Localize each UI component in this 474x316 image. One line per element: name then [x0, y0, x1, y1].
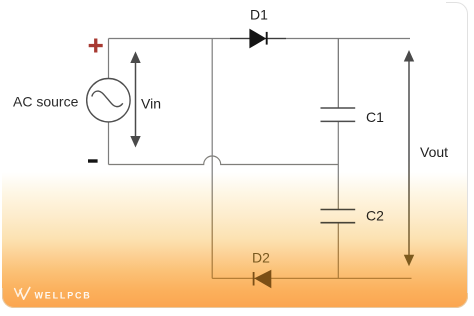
wire left vertical upper: AC source top lead — [108, 39, 110, 79]
diode D1 — [230, 29, 286, 49]
diode D2 — [254, 270, 272, 289]
label D2 — [252, 249, 270, 265]
svg-text:Vin: Vin — [141, 96, 161, 112]
wire bottom: node to Vout- through D2 — [212, 277, 411, 279]
wire right vertical middle: C1 to C2 — [337, 121, 339, 209]
label C1 — [366, 109, 384, 125]
label D1 — [250, 6, 268, 22]
svg-text:Vout: Vout — [420, 144, 448, 160]
svg-text:C2: C2 — [366, 208, 384, 224]
wire right vertical upper: D1 cathode to C1 — [337, 39, 339, 109]
label AC source — [13, 94, 79, 110]
label C2 — [366, 208, 384, 224]
wellpcb logo — [15, 288, 92, 301]
wire left vertical lower: AC source bottom lead — [108, 122, 110, 165]
wire middle: AC- to C1/C2 node with hop over middle vertical — [109, 156, 339, 165]
label Vin — [141, 96, 161, 112]
capacitor C1 — [321, 108, 356, 121]
svg-text:AC source: AC source — [13, 94, 79, 110]
svg-text:D1: D1 — [250, 6, 268, 22]
wire right vertical lower: C2 to bottom wire — [337, 223, 339, 279]
minus terminal — [88, 159, 98, 162]
svg-text:WELLPCB: WELLPCB — [35, 290, 92, 300]
wire top: AC+ to Vout+ — [109, 38, 411, 40]
wire middle vertical: node A to D2 branch — [211, 39, 213, 279]
Vout annotation arrow — [404, 50, 414, 266]
Vin annotation arrow — [130, 51, 140, 147]
label Vout — [420, 144, 448, 160]
AC source V1 circle with sine — [87, 79, 130, 122]
svg-text:D2: D2 — [252, 249, 270, 265]
capacitor C2 — [321, 210, 356, 223]
svg-text:C1: C1 — [366, 109, 384, 125]
plus terminal — [89, 39, 103, 53]
